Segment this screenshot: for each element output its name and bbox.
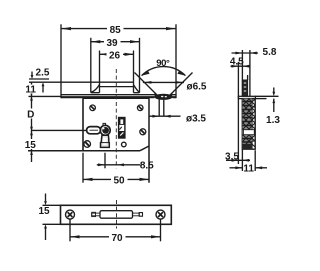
side view hatch	[238, 88, 260, 150]
D arrows	[30, 96, 33, 100]
left chain faceplate-bottom extension	[29, 95, 62, 97]
bolt slot right bar	[133, 213, 140, 216]
1.3 arrow	[272, 99, 275, 104]
screw pocket right bottom	[134, 92, 140, 94]
bolt slot left cap	[92, 212, 96, 216]
11 side arrows	[235, 166, 242, 169]
svg-text:15: 15	[38, 206, 50, 217]
side view faceplate-plane vertical	[237, 62, 239, 164]
o6.5 arrows	[144, 81, 151, 84]
svg-text:70: 70	[111, 233, 123, 244]
8.5 arrows	[98, 163, 105, 166]
screw top-left	[90, 105, 96, 111]
svg-text:2.5: 2.5	[36, 67, 50, 78]
key bow pill inner line	[90, 129, 99, 131]
dimension 50 left extension	[82, 153, 84, 183]
key knob nub	[103, 123, 106, 125]
case bolt slot outline	[119, 118, 125, 139]
key bit outline	[101, 135, 110, 147]
dimension 70 line	[70, 236, 161, 238]
side view right strip ticks	[253, 107, 255, 141]
bolt bridge line between pockets	[100, 86, 134, 88]
svg-text:11: 11	[25, 85, 36, 96]
dimension 85 extension right	[175, 24, 177, 98]
svg-text:39: 39	[106, 38, 118, 49]
26 arrows	[100, 53, 109, 56]
dimension 1.3 lower extension	[255, 98, 266, 100]
lock case bottom edge and 15 extension	[28, 150, 140, 152]
svg-text:90°: 90°	[156, 58, 170, 69]
dimension 3.5 side line	[226, 159, 250, 161]
keyhole axis line to left edge	[32, 129, 88, 131]
key knob white speck	[103, 128, 105, 130]
key knob circle	[100, 125, 110, 135]
dimension 1.3 upper shaft	[273, 88, 275, 94]
side view bolt right edge upper	[247, 75, 249, 80]
screw bottom-left	[84, 141, 91, 148]
svg-text:3.5: 3.5	[225, 151, 239, 162]
svg-text:D: D	[27, 110, 34, 121]
svg-text:4.5: 4.5	[230, 57, 244, 68]
pin hole bottom-middle	[122, 142, 127, 147]
key bit tick	[101, 142, 109, 144]
label D	[26, 109, 37, 119]
lock case left edge	[82, 98, 84, 151]
case bolt slot bottom dark section	[119, 131, 125, 138]
dimension 8.5 line	[97, 164, 141, 166]
dimension 26 extension left	[99, 51, 101, 93]
2.5 arrows	[31, 75, 34, 79]
dimension 70 right extension	[160, 220, 162, 242]
case bolt slot bottom white streak	[120, 132, 123, 135]
vertical dashed centerline	[115, 69, 117, 168]
dimension 15B top extension	[43, 204, 61, 206]
15B arrows	[44, 201, 47, 205]
side view bolt specks	[244, 83, 246, 91]
faceplate thick band	[61, 96, 176, 98]
dimension 8.5 extension (key axis)	[104, 153, 106, 169]
svg-text:ø3.5: ø3.5	[186, 114, 206, 125]
side view rungs	[242, 102, 252, 143]
90 degree arc	[142, 67, 186, 76]
side view extension 5.8 right	[249, 50, 251, 96]
case bolt slot middle tick	[119, 127, 121, 130]
bottom view plate	[61, 205, 172, 224]
dimension 1.3 shaft	[273, 99, 275, 112]
svg-text:1.3: 1.3	[266, 115, 280, 126]
screw top-right	[137, 105, 143, 111]
label 39	[104, 37, 121, 47]
svg-text:ø6.5: ø6.5	[186, 82, 206, 93]
lock case bevel corner	[140, 146, 149, 151]
bolt slot right pad	[139, 213, 142, 217]
countersink ellipse	[155, 94, 172, 99]
screw pocket left diagonal	[91, 85, 99, 93]
dimension 85 line	[61, 28, 176, 30]
85 arrows	[61, 27, 71, 30]
svg-text:85: 85	[110, 25, 122, 36]
faceplate front edge line	[61, 94, 176, 96]
key knob center	[102, 127, 109, 134]
svg-text:50: 50	[113, 175, 125, 186]
countersink arm end blob right	[169, 93, 172, 97]
dimension 39 line	[91, 41, 140, 43]
svg-text:15: 15	[25, 140, 37, 151]
dimension 11 side left line	[230, 167, 243, 169]
side view bolt column	[242, 80, 247, 96]
side view white window	[243, 130, 254, 135]
side view hatch base	[242, 99, 252, 150]
side view cap rect	[238, 96, 255, 98]
dimension 39 extension right	[139, 38, 141, 93]
dimension 5.8 line	[232, 52, 259, 54]
bolt slot left bar	[92, 213, 100, 216]
dimension 26 extension right	[133, 51, 135, 93]
dimension 26 line	[100, 53, 134, 55]
case bolt slot top white core	[120, 119, 123, 124]
countersink arm end blob left	[154, 93, 157, 97]
label 15 left	[24, 139, 39, 149]
left chain 2.5 up arrow shaft	[42, 86, 44, 93]
dimension 15B bottom extension	[43, 223, 61, 225]
label 70	[109, 232, 126, 242]
39 arrows	[91, 40, 101, 43]
15 arrows	[30, 131, 33, 135]
11 arrows	[30, 82, 33, 86]
faceplate top-view upper lip line	[29, 78, 49, 80]
screw right-middle	[140, 129, 146, 135]
label 11 left	[25, 85, 37, 94]
4.5 arrows	[231, 65, 238, 68]
dimension 70 left extension	[69, 220, 71, 242]
bottom screw right	[156, 210, 165, 219]
svg-text:5.8: 5.8	[263, 47, 277, 58]
label 26	[107, 50, 124, 60]
o3.5 arrows	[152, 115, 159, 118]
hole o3.5 edge lines	[159, 99, 164, 115]
bottom screw left	[66, 210, 75, 219]
dimension o3.5 line	[150, 115, 181, 117]
key bow pill outer	[87, 127, 101, 134]
bottom view dashed centerline	[116, 200, 118, 229]
svg-text:26: 26	[109, 50, 121, 61]
side view inner wall	[251, 99, 253, 150]
case bolt slot top dark section	[119, 118, 125, 125]
70 arrows	[70, 235, 80, 238]
svg-text:8.5: 8.5	[140, 160, 154, 171]
screw pocket right diagonal	[134, 85, 140, 92]
countersink V right arm	[170, 73, 193, 96]
dimension 11 side right line	[255, 167, 267, 169]
lock case right edge and 50 extension	[148, 98, 150, 183]
dimension 1.3 upper extension	[255, 95, 278, 97]
dimension o6.5 line	[143, 81, 184, 83]
dimension 85 extension left	[60, 24, 62, 98]
dimension 39 extension left	[90, 38, 92, 93]
label 11 side	[244, 163, 255, 173]
side view extension case-left	[241, 50, 243, 171]
side view extension case-right below	[254, 150, 256, 171]
arrowheads	[30, 27, 275, 238]
label 50	[111, 175, 128, 185]
key bit inner window	[103, 138, 106, 145]
screw pocket left bottom	[91, 92, 100, 94]
dimension 15B bottom shaft	[45, 228, 47, 240]
50 arrows	[83, 178, 93, 181]
left chain vertical D shaft	[31, 82, 33, 162]
faceplate top-view long edge	[29, 81, 134, 83]
dimension 15B top shaft	[45, 194, 47, 202]
countersink V left arm	[135, 73, 158, 96]
side view bottom dark band	[242, 144, 252, 149]
label 85	[107, 24, 124, 34]
bolt slot main rect	[100, 211, 133, 219]
dimension 4.5 line	[231, 65, 251, 67]
3.5 side arrows	[232, 159, 239, 162]
dimension 50 line	[83, 178, 149, 180]
lock case top edge	[83, 97, 149, 99]
svg-text:11: 11	[243, 163, 254, 174]
90 arc arrows	[142, 71, 150, 76]
side view case rect	[242, 99, 255, 150]
left chain 2.5 down arrow shaft	[31, 72, 33, 76]
5.8 arrows	[235, 52, 242, 55]
